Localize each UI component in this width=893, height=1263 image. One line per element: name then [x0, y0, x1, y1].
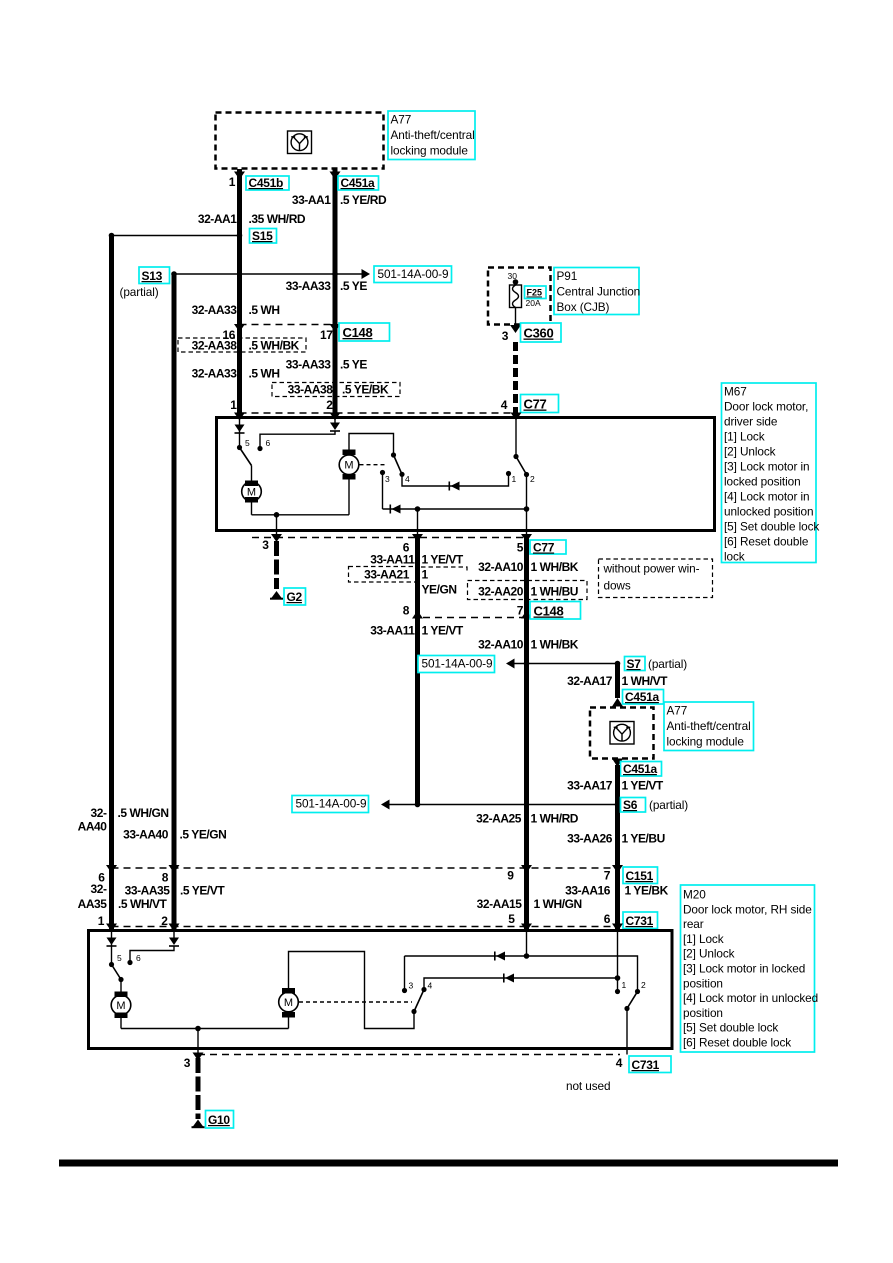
M20 pin 1 internal wire	[111, 932, 113, 965]
svg-text:position: position	[683, 976, 723, 990]
svg-text:locking module: locking module	[391, 144, 469, 158]
svg-text:M20: M20	[683, 888, 706, 902]
M20 motor 2 (M)	[279, 988, 299, 1018]
svg-text:C731: C731	[632, 1058, 660, 1072]
svg-text:unlocked position: unlocked position	[724, 505, 813, 519]
arrow left to reference	[506, 659, 515, 669]
A77 label box (lower)	[664, 702, 754, 751]
svg-text:[1] Lock: [1] Lock	[683, 932, 724, 946]
svg-text:5: 5	[508, 912, 515, 926]
ground G10 symbol	[193, 1120, 204, 1128]
svg-text:9: 9	[507, 869, 514, 883]
svg-text:Door lock motor, RH side: Door lock motor, RH side	[683, 902, 812, 916]
svg-text:32-AA15: 32-AA15	[477, 897, 523, 911]
svg-text:32-: 32-	[91, 882, 107, 896]
svg-text:A77: A77	[391, 113, 412, 127]
svg-text:33-AA40: 33-AA40	[123, 828, 169, 842]
M67 switch contact 3	[380, 470, 385, 475]
connector C731 line	[112, 926, 619, 928]
svg-text:M: M	[284, 997, 293, 1009]
M67 motor 1 (M)	[242, 481, 262, 503]
off-page reference 501-14A-00-9 (lower)	[292, 796, 369, 813]
pin arrow down at C451a	[330, 172, 341, 180]
M67 pin 4 internal wire	[515, 419, 517, 457]
svg-text:P91: P91	[557, 269, 578, 283]
svg-text:1 YE/BU: 1 YE/BU	[622, 832, 665, 846]
pin arrow down at C451b	[234, 172, 245, 180]
svg-text:7: 7	[604, 869, 611, 883]
wire 33-AA40 .5 YE/GN (left long 2)	[172, 274, 177, 931]
svg-text:33-AA17: 33-AA17	[567, 779, 613, 793]
svg-text:33-AA21: 33-AA21	[364, 568, 410, 582]
M20 switch contact 4	[421, 987, 426, 992]
svg-text:C151: C151	[626, 869, 654, 883]
svg-text:1 WH/BU: 1 WH/BU	[531, 585, 579, 599]
M67 switch blade 3-4	[394, 455, 403, 474]
off-page reference 501-14A-00-9 (top)	[374, 266, 452, 283]
M20 pin 6 internal wire (contact 1)	[617, 932, 619, 992]
diode at M20 pin 1	[107, 938, 117, 946]
svg-text:3: 3	[409, 981, 414, 991]
svg-text:33-AA33: 33-AA33	[286, 358, 332, 372]
svg-text:driver side: driver side	[724, 415, 778, 429]
svg-text:C360: C360	[524, 326, 554, 341]
M20 label box	[681, 885, 819, 1052]
M67 switch contact 2	[524, 472, 529, 477]
svg-text:5: 5	[117, 953, 122, 963]
svg-text:Anti-theft/central: Anti-theft/central	[667, 719, 751, 733]
svg-text:C148: C148	[534, 604, 564, 619]
M67 label box	[722, 383, 820, 564]
svg-text:(partial): (partial)	[648, 657, 687, 671]
svg-text:.5 YE/RD: .5 YE/RD	[340, 193, 387, 207]
M20 switch contact 3	[402, 988, 407, 993]
wire 33-AA17 1 YE/VT	[615, 765, 620, 931]
svg-text:33-AA33: 33-AA33	[286, 279, 332, 293]
svg-text:6: 6	[604, 912, 611, 926]
svg-text:position: position	[683, 1006, 723, 1020]
pin arrows into M20	[106, 924, 117, 932]
svg-text:1 WH/GN: 1 WH/GN	[534, 897, 582, 911]
M67 bottom rail wire	[252, 514, 350, 516]
wire from fuse to C360	[515, 308, 517, 327]
ground G2 label	[284, 588, 306, 605]
svg-text:2: 2	[530, 474, 535, 484]
M67 pin 2 internal wire	[260, 419, 335, 449]
connector C77 label (top)	[521, 395, 559, 413]
svg-text:33-AA38: 33-AA38	[288, 383, 334, 397]
svg-text:2: 2	[641, 980, 646, 990]
svg-text:[4] Lock motor in unlocked: [4] Lock motor in unlocked	[683, 991, 818, 1005]
M67 internal rail to pins 6 and 5	[383, 508, 527, 510]
svg-text:[1] Lock: [1] Lock	[724, 430, 765, 444]
wire 33-AA11 1 YE/VT (from M67 pin 6)	[415, 538, 420, 805]
svg-text:1 YE/VT: 1 YE/VT	[622, 779, 664, 793]
svg-text:1 WH/RD: 1 WH/RD	[531, 812, 579, 826]
svg-text:Door lock motor,: Door lock motor,	[724, 400, 808, 414]
svg-text:not used: not used	[566, 1079, 610, 1093]
svg-text:.5 YE/VT: .5 YE/VT	[180, 884, 225, 898]
svg-text:3: 3	[385, 474, 390, 484]
lock actuator icon inside A77 lower	[610, 722, 634, 745]
svg-text:1 WH/BK: 1 WH/BK	[531, 560, 579, 574]
arrow right to 501-14A-00-9	[362, 269, 371, 279]
svg-text:4: 4	[616, 1056, 623, 1070]
svg-text:32-AA33: 32-AA33	[192, 303, 238, 317]
M20 switch pivot	[411, 1009, 416, 1014]
M20 switch contact 6	[127, 960, 132, 965]
svg-text:AA40: AA40	[78, 820, 108, 834]
svg-text:dows: dows	[604, 579, 631, 593]
svg-text:[3] Lock motor in locked: [3] Lock motor in locked	[683, 962, 805, 976]
svg-text:G2: G2	[287, 590, 303, 604]
svg-text:32-AA33: 32-AA33	[192, 367, 238, 381]
svg-text:M: M	[116, 1000, 125, 1012]
svg-text:C451a: C451a	[341, 176, 375, 190]
M20 rail 2 with diode	[424, 978, 618, 987]
svg-text:C451b: C451b	[249, 176, 284, 190]
svg-text:G10: G10	[208, 1113, 230, 1127]
svg-text:(partial): (partial)	[120, 285, 159, 299]
bottom rule bar	[59, 1160, 838, 1167]
svg-text:33-AA35: 33-AA35	[125, 884, 171, 898]
M67 pin 5 internal wire	[526, 509, 528, 529]
ground wire to G2 (thick dashed)	[274, 541, 279, 589]
splice wire to S6	[389, 804, 618, 806]
connector C148 line (lower)	[423, 617, 527, 619]
M67 switch contact 5 (pivot)	[237, 445, 242, 450]
wire 32-AA17 1 WH/VT	[615, 664, 620, 699]
module A77 anti-theft/central locking module (lower)	[590, 708, 654, 759]
svg-text:32-AA20: 32-AA20	[478, 585, 524, 599]
wire 32-AA1 .35 WH/RD (pin 1 C451b)	[237, 169, 242, 418]
connector line at M67 top	[240, 412, 517, 414]
svg-text:4: 4	[501, 398, 508, 412]
svg-text:501-14A-00-9: 501-14A-00-9	[378, 267, 449, 281]
M67 pin 3 internal wire	[276, 515, 278, 529]
svg-text:32-AA1: 32-AA1	[198, 212, 237, 226]
M20 pin 4 internal wire	[626, 1009, 628, 1048]
M20 contact 3 wire to rail 1	[404, 956, 406, 991]
svg-text:S15: S15	[252, 229, 273, 243]
svg-text:A77: A77	[667, 704, 688, 718]
svg-text:without power win-: without power win-	[603, 562, 700, 576]
connector C731 line (bottom)	[198, 1054, 620, 1056]
M67 switch contact 4	[399, 472, 404, 477]
svg-text:5: 5	[517, 541, 524, 555]
M20 switch contact 5 (pivot)	[109, 962, 114, 967]
A77 label box	[388, 111, 475, 160]
power wire C360 to C77 (thick dashed)	[513, 342, 518, 413]
svg-text:Central Junction: Central Junction	[557, 285, 641, 299]
splice S15 wire	[112, 235, 240, 237]
svg-text:3: 3	[262, 538, 269, 552]
svg-text:C77: C77	[533, 541, 555, 555]
svg-text:33-AA11: 33-AA11	[370, 553, 415, 567]
svg-text:33-AA16: 33-AA16	[565, 884, 611, 898]
svg-text:1 YE/VT: 1 YE/VT	[422, 624, 464, 638]
arrow left to reference (lower)	[381, 800, 390, 810]
svg-text:6: 6	[136, 953, 141, 963]
svg-text:(partial): (partial)	[649, 798, 688, 812]
svg-text:[4] Lock motor in: [4] Lock motor in	[724, 490, 810, 504]
ground G10 label	[206, 1111, 234, 1129]
svg-text:1 YE/BK: 1 YE/BK	[625, 884, 669, 898]
svg-text:S7: S7	[627, 657, 642, 671]
alternate wire label 32-AA20 1 WH/BU	[468, 581, 588, 600]
svg-text:1: 1	[622, 980, 627, 990]
svg-text:2: 2	[326, 398, 333, 412]
svg-text:[2] Unlock: [2] Unlock	[724, 445, 776, 459]
connector C451b	[246, 176, 289, 190]
splice wire to S7	[514, 663, 618, 665]
svg-text:.5 WH: .5 WH	[249, 303, 280, 317]
module M20 door lock motor RH side rear (box)	[89, 931, 673, 1049]
svg-text:3: 3	[502, 329, 509, 343]
svg-text:[5] Set double lock: [5] Set double lock	[683, 1021, 778, 1035]
M67 switch contact 1	[506, 471, 511, 476]
connector C148 label (lower)	[530, 602, 581, 620]
connector line at M67 bottom (C77)	[252, 537, 527, 539]
M20 pin 3 stub	[197, 1049, 199, 1057]
svg-text:1 WH/VT: 1 WH/VT	[622, 674, 669, 688]
off-page reference 501-14A-00-9 (middle)	[418, 656, 495, 673]
alternate wire label 32-AA38 .5 WH/BK	[178, 338, 306, 353]
svg-text:S6: S6	[623, 798, 638, 812]
M67 switch contact 6	[257, 446, 262, 451]
svg-text:lock: lock	[724, 550, 745, 564]
M20 mechanical link (dashed)	[299, 1001, 412, 1003]
M20 bottom rail wire	[121, 1028, 289, 1030]
M67 pin 1 internal wire	[239, 419, 241, 448]
M67 contact 3 wire to rail	[382, 473, 384, 510]
svg-text:4: 4	[405, 474, 410, 484]
svg-text:S13: S13	[142, 269, 163, 283]
fuse F25 label	[525, 286, 547, 308]
M67 contact 4 wire with diode to contact 1	[402, 474, 509, 487]
svg-text:C731: C731	[626, 914, 654, 928]
svg-text:1: 1	[230, 398, 237, 412]
svg-text:F25: F25	[527, 288, 543, 298]
connector C148 label (top)	[339, 323, 390, 341]
pin arrow up at C451a	[612, 698, 623, 707]
svg-text:8: 8	[162, 871, 169, 885]
svg-text:M: M	[344, 460, 353, 472]
svg-text:32-AA10: 32-AA10	[478, 638, 524, 652]
svg-text:5: 5	[245, 438, 250, 448]
svg-text:1: 1	[512, 474, 517, 484]
M20 pin 3 internal wire	[197, 1029, 199, 1048]
M67 switch blade 1-2	[516, 457, 527, 475]
svg-text:[3] Lock motor in: [3] Lock motor in	[724, 460, 810, 474]
M20 switch blade 3-4	[414, 990, 424, 1012]
svg-text:501-14A-00-9: 501-14A-00-9	[296, 797, 367, 811]
connector C731 label (bottom)	[629, 1056, 671, 1073]
splice S6 label	[621, 798, 646, 813]
svg-text:locked position: locked position	[724, 475, 801, 489]
lock actuator icon inside A77	[288, 131, 312, 154]
connector C451a (out of A77 lower)	[621, 762, 662, 777]
svg-text:[2] Unlock: [2] Unlock	[683, 947, 735, 961]
diode at M67 pin 1	[235, 425, 245, 433]
svg-text:32-: 32-	[91, 806, 107, 820]
svg-text:3: 3	[184, 1056, 191, 1070]
connector C451a	[338, 176, 379, 190]
M67 switch blade 5-6	[240, 448, 252, 466]
svg-text:32-AA38: 32-AA38	[192, 339, 238, 353]
svg-text:[6] Reset double: [6] Reset double	[724, 535, 809, 549]
svg-text:32-AA10: 32-AA10	[478, 560, 524, 574]
diode at M67 pin 2	[330, 423, 340, 431]
svg-text:rear: rear	[683, 917, 704, 931]
connector C151 line	[112, 867, 619, 869]
svg-text:20A: 20A	[526, 298, 541, 308]
svg-text:32-AA25: 32-AA25	[476, 812, 522, 826]
svg-text:1 WH/BK: 1 WH/BK	[531, 638, 579, 652]
M20 pin 2 internal wire	[130, 932, 174, 963]
M20 rail 1 with diode	[405, 956, 638, 992]
svg-text:1: 1	[422, 568, 429, 582]
splice S13 label	[139, 267, 170, 284]
connector C148 line (top)	[240, 324, 336, 326]
connector C77 label (bottom)	[530, 540, 566, 555]
M20 pin 9 internal wire	[526, 932, 528, 956]
svg-text:33-AA1: 33-AA1	[292, 193, 331, 207]
M20 switch contact 2	[635, 989, 640, 994]
connector C451a (into A77 lower)	[623, 690, 664, 705]
M20 pin 4 stub	[626, 1049, 628, 1055]
svg-text:33-AA26: 33-AA26	[567, 832, 613, 846]
svg-text:M67: M67	[724, 385, 747, 399]
svg-text:6: 6	[266, 438, 271, 448]
wire 33-AA1 .5 YE/RD (C451a)	[333, 169, 338, 418]
note box: without power windows	[599, 559, 713, 598]
diode at M20 pin 2	[169, 938, 179, 946]
M20 switch blade 1-2	[627, 992, 638, 1009]
M67 motor 2 top wire to switch	[349, 434, 394, 456]
P91 Central Junction Box	[488, 268, 551, 325]
svg-text:.5 WH/GN: .5 WH/GN	[118, 806, 169, 820]
M20 switch blade 5-6	[112, 965, 122, 980]
ground G2 symbol	[271, 591, 282, 599]
ground wire to G10 (thick dashed)	[196, 1058, 201, 1119]
diode on rail (pointing left)	[392, 505, 401, 514]
alternate wire label 33-AA38 .5 YE/BK	[272, 383, 400, 397]
svg-text:.5 YE: .5 YE	[340, 358, 367, 372]
svg-text:.5 YE/BK: .5 YE/BK	[342, 383, 389, 397]
splice S7 label	[625, 657, 646, 672]
svg-text:M: M	[247, 487, 256, 499]
svg-text:501-14A-00-9: 501-14A-00-9	[422, 657, 493, 671]
module M67 door lock motor driver side (box)	[217, 418, 715, 531]
svg-text:C451a: C451a	[623, 762, 657, 776]
splice S13 wire	[174, 273, 362, 275]
svg-text:Anti-theft/central: Anti-theft/central	[391, 128, 475, 142]
svg-text:.5 WH: .5 WH	[249, 367, 280, 381]
fuse F25 20A	[510, 285, 522, 308]
wire 32-AA10 1 WH/BK (from M67 pin 5)	[524, 538, 529, 931]
svg-text:32-AA17: 32-AA17	[567, 674, 613, 688]
svg-text:17: 17	[320, 328, 333, 342]
svg-text:1 YE/VT: 1 YE/VT	[422, 553, 464, 567]
svg-text:.5 WH/VT: .5 WH/VT	[118, 897, 168, 911]
svg-text:.5 YE/GN: .5 YE/GN	[180, 828, 227, 842]
svg-text:Box (CJB): Box (CJB)	[557, 300, 610, 314]
svg-text:1: 1	[229, 175, 236, 189]
M20 motor 1 (M)	[111, 992, 131, 1019]
connector C731 label	[623, 912, 658, 929]
svg-text:4: 4	[428, 981, 433, 991]
M67 mechanical link (dashed)	[360, 464, 386, 466]
svg-text:YE/GN: YE/GN	[422, 583, 457, 597]
wire 32-AA40 .5 WH/GN (left long)	[109, 236, 114, 931]
svg-text:locking module: locking module	[667, 735, 745, 749]
svg-text:1: 1	[98, 914, 105, 928]
svg-text:.35 WH/RD: .35 WH/RD	[249, 212, 306, 226]
M67 motor 2 (M)	[339, 450, 359, 480]
svg-text:C77: C77	[524, 397, 547, 412]
pin arrow down below A77 lower	[612, 759, 623, 768]
M67 pin 6 internal wire	[417, 509, 419, 529]
svg-text:AA35: AA35	[78, 897, 108, 911]
svg-text:.5 WH/BK: .5 WH/BK	[249, 339, 300, 353]
svg-text:[6] Reset double lock: [6] Reset double lock	[683, 1036, 791, 1050]
P91 label box	[554, 268, 640, 315]
svg-text:.5 YE: .5 YE	[340, 279, 367, 293]
connector C360 label	[521, 323, 562, 342]
connector C151 label	[623, 867, 658, 884]
svg-text:C451a: C451a	[625, 690, 659, 704]
svg-text:C148: C148	[343, 325, 373, 340]
splice S15 label	[250, 229, 277, 244]
alternate wire label 33-AA21 1 YE/GN	[349, 567, 468, 597]
module A77 anti-theft/central locking module (top)	[216, 113, 384, 169]
svg-text:7: 7	[517, 604, 524, 618]
M20 motor 2 top wire routing	[289, 952, 415, 1029]
svg-text:[5] Set double lock: [5] Set double lock	[724, 520, 819, 534]
svg-text:8: 8	[403, 604, 410, 618]
svg-text:33-AA11: 33-AA11	[370, 624, 415, 638]
